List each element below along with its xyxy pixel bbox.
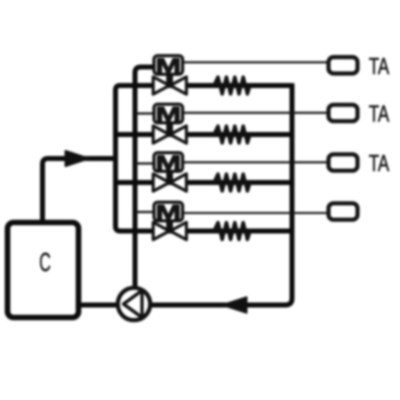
svg-text:TA: TA (369, 54, 390, 79)
svg-text:M: M (155, 54, 181, 78)
svg-text:TA: TA (369, 152, 390, 177)
svg-text:M: M (155, 102, 181, 126)
svg-text:TA: TA (369, 102, 390, 127)
svg-text:M: M (155, 200, 181, 224)
svg-text:C: C (39, 248, 51, 277)
svg-text:M: M (155, 151, 181, 175)
